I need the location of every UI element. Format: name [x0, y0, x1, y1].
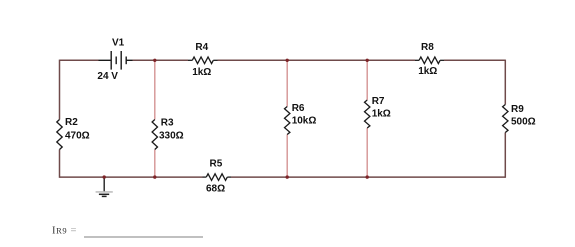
wire: left vertical above R2	[59, 60, 61, 120]
wire: R5 right lead to bottom-right corner	[231, 176, 505, 178]
svg-text:10kΩ: 10kΩ	[292, 116, 317, 127]
svg-text:1kΩ: 1kΩ	[372, 108, 391, 119]
resistor R7	[365, 100, 370, 128]
wire: left vertical below R2	[59, 150, 61, 178]
svg-text:R7: R7	[372, 96, 385, 107]
wire: R7 branch vertical above zigzag	[366, 60, 368, 100]
svg-text:V1: V1	[112, 37, 125, 48]
wire: battery to R4 left lead (through node at R3 branch)	[133, 59, 189, 61]
wire: right vertical above R9	[504, 60, 506, 105]
svg-text:330Ω: 330Ω	[159, 130, 184, 141]
resistor R5	[203, 174, 232, 181]
wire: R6 branch vertical above zigzag	[286, 60, 288, 106]
wire: R7 branch vertical below zigzag	[366, 128, 368, 177]
svg-text:1kΩ: 1kΩ	[418, 66, 437, 77]
wire: R3 branch vertical below zigzag	[154, 150, 156, 178]
node at R6 branch (top)	[286, 59, 289, 62]
svg-text:R8: R8	[421, 42, 434, 53]
node at V1/R3 branch (top)	[153, 59, 156, 62]
resistor R4	[188, 57, 218, 64]
node at R3 branch (bottom)	[153, 175, 156, 178]
resistor R3	[152, 120, 157, 150]
resistor R6	[285, 107, 290, 135]
resistor R2	[57, 120, 62, 150]
svg-text:IR9 =: IR9 =	[52, 226, 77, 237]
svg-text:R2: R2	[65, 117, 78, 128]
svg-text:R3: R3	[161, 118, 174, 129]
svg-text:1kΩ: 1kΩ	[192, 67, 211, 78]
svg-text:R6: R6	[292, 103, 305, 114]
resistor R8	[415, 57, 444, 64]
answer blank line	[84, 236, 203, 238]
wire: R8 right lead to top-right corner	[444, 59, 505, 61]
battery V1	[99, 51, 133, 70]
wire: bottom rail, left corner to R5 left lead	[60, 176, 203, 178]
ground	[96, 177, 113, 196]
node at ground (bottom)	[103, 175, 106, 178]
svg-text:R5: R5	[210, 159, 223, 170]
wire: R6 branch vertical below zigzag	[286, 135, 288, 178]
node at R6 branch (bottom)	[286, 175, 289, 178]
svg-text:470Ω: 470Ω	[65, 130, 90, 141]
wire: top rail, left corner to battery	[60, 59, 99, 61]
svg-text:R9: R9	[511, 104, 524, 115]
wire: R4 right lead to R8 left lead (through nodes at R6 and R7 branches)	[218, 59, 416, 61]
svg-text:R4: R4	[195, 42, 208, 53]
wire: R3 branch vertical above zigzag	[154, 60, 156, 119]
node at R7 branch (top)	[366, 59, 369, 62]
wire: right vertical below R9	[504, 133, 506, 178]
node at R7 branch (bottom)	[366, 175, 369, 178]
svg-text:68Ω: 68Ω	[206, 183, 225, 194]
resistor R9	[503, 105, 508, 133]
svg-text:24 V: 24 V	[97, 71, 118, 82]
svg-text:500Ω: 500Ω	[511, 117, 536, 128]
